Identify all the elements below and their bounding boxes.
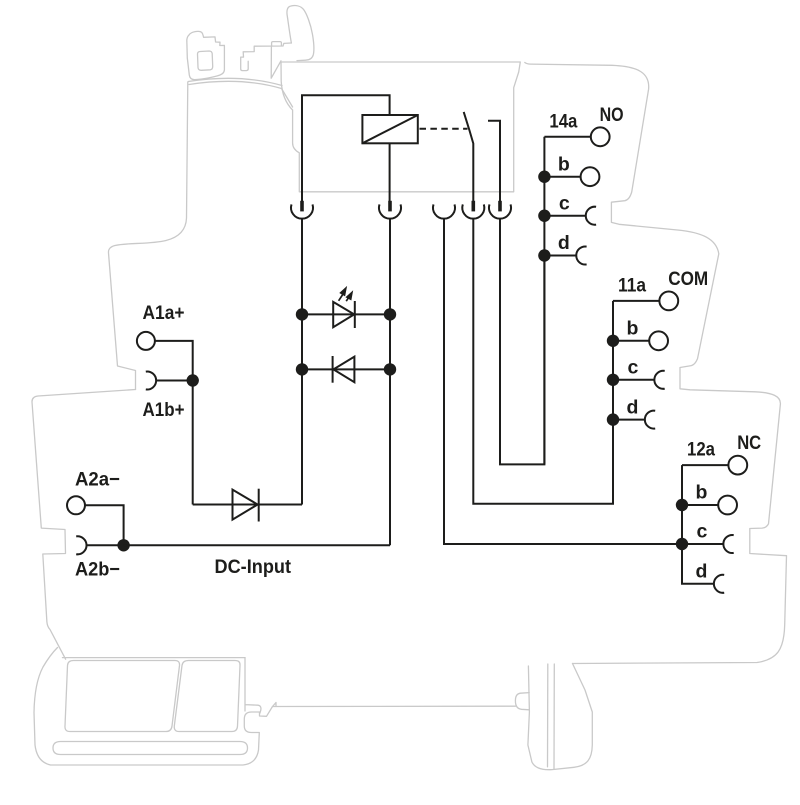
housing: left foot window 1 xyxy=(65,661,180,732)
housing: clip wedge to box corner xyxy=(271,46,281,78)
wire NC c xyxy=(682,543,724,545)
svg-text:c: c xyxy=(697,521,708,543)
terminal A2a xyxy=(67,496,85,514)
label 12a (NC a) xyxy=(687,439,715,461)
plug-in clamp 3 (NC feed) xyxy=(433,204,455,218)
svg-text:b: b xyxy=(558,153,570,175)
svg-text:c: c xyxy=(628,357,639,379)
housing: clip window xyxy=(198,51,213,70)
svg-text:A1b+: A1b+ xyxy=(143,399,185,421)
label A1b+ xyxy=(143,399,185,421)
label NO xyxy=(600,104,624,126)
wire A1b to node xyxy=(156,380,193,382)
svg-text:NO: NO xyxy=(600,104,624,126)
wire NO b xyxy=(544,176,580,178)
svg-text:A2b−: A2b− xyxy=(75,559,120,581)
wire A1 down xyxy=(192,381,194,505)
housing: clip tab xyxy=(272,42,282,46)
label NO d xyxy=(558,232,570,254)
wire clamp5 to NO bus xyxy=(500,219,544,465)
diode V2 (reverse polarity) xyxy=(333,356,355,383)
relay contact fixed side xyxy=(488,121,500,203)
terminal NC c socket xyxy=(723,535,733,553)
relay coil K1 xyxy=(362,115,417,143)
wire NC a xyxy=(682,464,728,466)
wire NO c xyxy=(544,215,586,217)
terminal COM c socket xyxy=(654,371,664,389)
svg-text:12a: 12a xyxy=(687,439,715,461)
junction diode left xyxy=(296,363,308,375)
housing: left foot outline xyxy=(34,648,273,766)
terminal NC d socket xyxy=(714,575,724,593)
junction diode right xyxy=(384,363,396,375)
terminal 12a circle xyxy=(728,456,747,475)
housing: right latch inner xyxy=(548,664,555,769)
wire A1a to node xyxy=(155,341,192,381)
wire LED branch xyxy=(302,313,390,315)
svg-text:b: b xyxy=(696,482,708,504)
wire NC d xyxy=(681,583,714,585)
housing: clip body xyxy=(187,31,225,79)
terminal 14a circle xyxy=(591,127,610,146)
terminal NO d socket xyxy=(576,246,586,264)
wire coil top feed xyxy=(302,95,390,203)
LED indicator V1 xyxy=(333,288,355,328)
label DC-Input xyxy=(215,556,292,578)
housing: seam lower xyxy=(189,81,293,107)
wire clamp3 to NC c xyxy=(444,219,682,544)
terminal 11a circle xyxy=(659,292,678,311)
label NC xyxy=(737,432,761,454)
terminal COM b xyxy=(649,331,668,350)
junction LED left xyxy=(296,308,308,320)
label NO c xyxy=(559,192,570,214)
label 11a (COM a) xyxy=(618,275,646,297)
housing: left foot slot xyxy=(53,742,248,755)
terminal A1b socket xyxy=(146,372,156,390)
junction COM xyxy=(607,413,619,425)
wire COM bus xyxy=(612,301,614,504)
plug-in clamp 2 (coil-) xyxy=(379,201,401,219)
junction NO xyxy=(538,249,550,261)
wire COM a xyxy=(613,300,659,302)
label NC d xyxy=(696,561,708,583)
label 14a (NO a) xyxy=(549,110,577,132)
wire clamp4 to COM bus xyxy=(473,219,613,504)
svg-text:d: d xyxy=(627,396,639,418)
wire COM d xyxy=(613,419,645,421)
junction LED right xyxy=(384,308,396,320)
terminal NO c socket xyxy=(586,207,596,225)
junction A1 xyxy=(187,374,199,386)
diode V3 (series) xyxy=(233,489,259,522)
housing: clip arm xyxy=(241,43,292,71)
wire COM c xyxy=(613,379,655,381)
junction NO xyxy=(538,171,550,183)
svg-text:b: b xyxy=(627,318,639,340)
svg-text:d: d xyxy=(696,561,708,583)
svg-text:14a: 14a xyxy=(549,110,577,132)
wire coil bottom to terminal 2 xyxy=(389,143,391,203)
wire NO d xyxy=(544,255,576,257)
wire NO bus xyxy=(543,137,545,465)
housing: upper-left body xyxy=(108,82,187,390)
plug-in clamp 4 (COM feed) xyxy=(462,201,484,219)
junction COM xyxy=(607,374,619,386)
housing: relay compartment box xyxy=(281,62,520,192)
terminal NO b xyxy=(581,167,600,186)
label NC b xyxy=(696,482,708,504)
wire LED rail left xyxy=(301,219,303,505)
label A1a+ xyxy=(143,302,185,324)
wire diode branch xyxy=(193,504,302,506)
housing: rail tab xyxy=(515,693,529,710)
housing: left foot window 2 xyxy=(174,661,240,732)
wire reverse-diode branch xyxy=(302,368,390,370)
label COM c xyxy=(628,357,639,379)
terminal A2b socket xyxy=(76,536,86,554)
junction NC xyxy=(676,499,688,511)
label NC c xyxy=(697,521,708,543)
svg-text:DC-Input: DC-Input xyxy=(215,556,292,578)
plug-in clamp 5 (NO feed) xyxy=(489,201,511,219)
relay contact blade xyxy=(464,112,474,203)
housing: DIN rail edge xyxy=(273,703,516,707)
wire A2a to node xyxy=(86,505,124,545)
housing: left foot top edge xyxy=(63,657,246,659)
terminal A1a xyxy=(137,332,155,350)
svg-text:A1a+: A1a+ xyxy=(143,302,185,324)
label COM b xyxy=(627,318,639,340)
svg-text:A2a−: A2a− xyxy=(75,469,120,491)
wire COM b xyxy=(613,340,649,342)
terminal NC b xyxy=(718,496,737,515)
label COM d xyxy=(627,396,639,418)
plug-in clamp 1 (coil+) xyxy=(291,201,313,219)
housing: middle-left body xyxy=(32,390,136,660)
wire NO a xyxy=(544,136,590,138)
junction NC xyxy=(676,538,688,550)
junction NO xyxy=(538,210,550,222)
svg-text:NC: NC xyxy=(737,432,761,454)
svg-text:c: c xyxy=(559,192,570,214)
junction COM xyxy=(607,335,619,347)
label NO b xyxy=(558,153,570,175)
housing: release-lever thumb xyxy=(287,6,314,61)
housing: tier roofs and right edges xyxy=(525,63,787,664)
wire NC b xyxy=(682,504,718,506)
svg-text:d: d xyxy=(558,232,570,254)
svg-text:11a: 11a xyxy=(618,275,646,297)
housing: seam upper xyxy=(188,78,282,85)
wire DC-Input bus xyxy=(124,544,390,546)
terminal COM d socket xyxy=(645,411,655,429)
junction A2 xyxy=(117,539,129,551)
wire NC bus xyxy=(681,465,683,584)
label A2a− xyxy=(75,469,120,491)
label COM xyxy=(668,268,708,290)
housing: right latch xyxy=(528,664,592,770)
svg-text:COM: COM xyxy=(668,268,708,290)
wire LED rail right xyxy=(389,219,391,546)
actuation dashed link xyxy=(420,128,468,130)
wire A2b to node xyxy=(86,544,123,546)
label A2b− xyxy=(75,559,120,581)
